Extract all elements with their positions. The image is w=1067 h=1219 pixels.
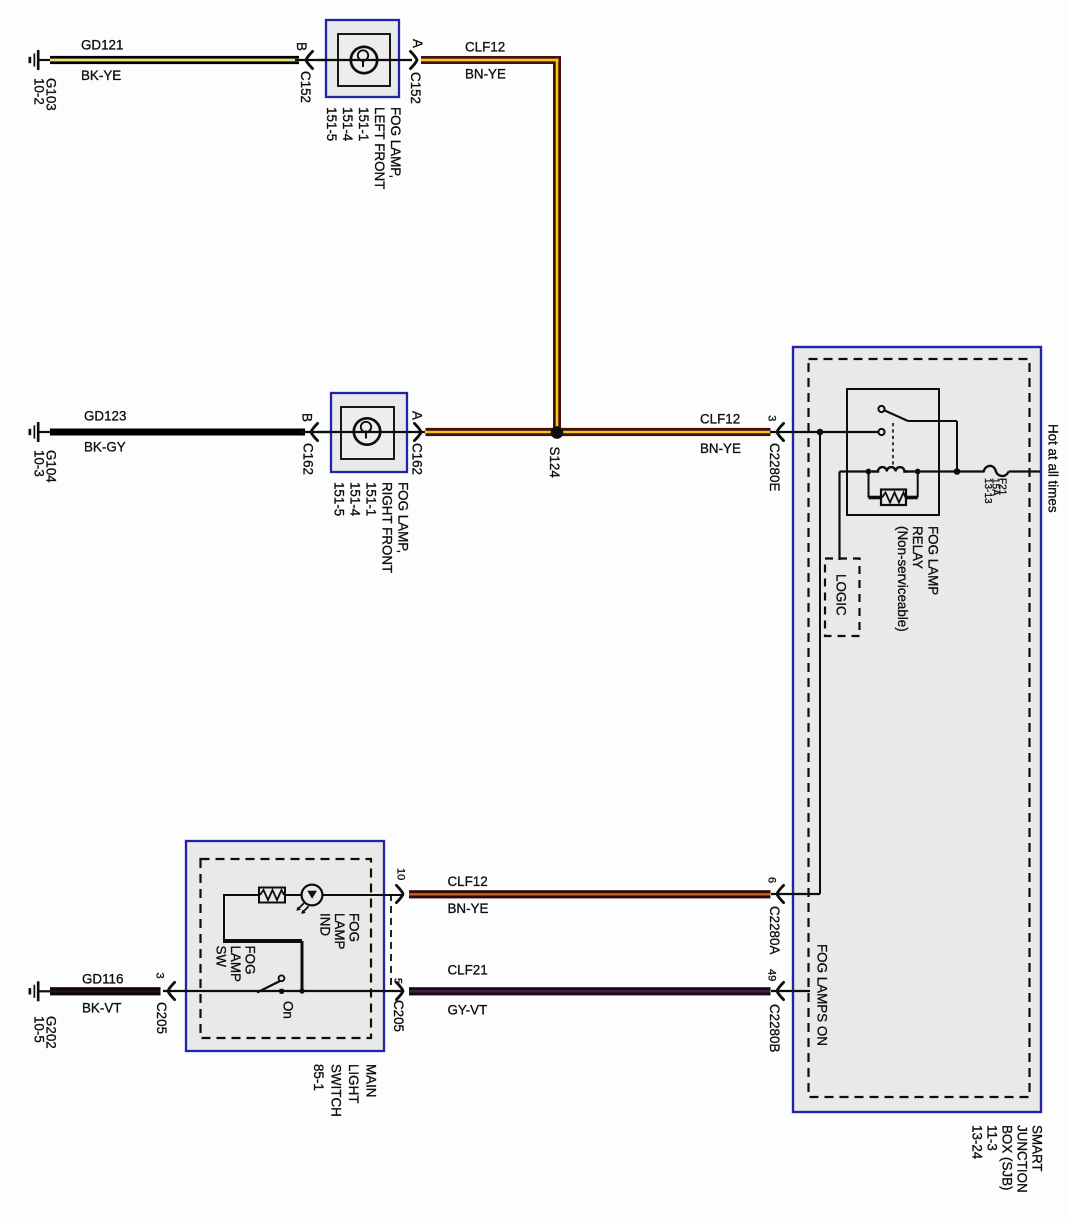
label FOG LAMPS ON <box>815 944 830 1046</box>
pin label 10 <box>394 868 406 880</box>
svg-text:49: 49 <box>766 969 778 981</box>
svg-text:GY-VT: GY-VT <box>448 1003 488 1018</box>
svg-text:SWITCH: SWITCH <box>328 1064 343 1117</box>
svg-text:13-24: 13-24 <box>970 1125 985 1160</box>
pin label 5 <box>391 978 403 984</box>
label G104 10-3 <box>31 450 58 483</box>
wire CLF12 yellow stripe vertical <box>556 59 559 431</box>
connector label C205 left <box>154 1002 169 1034</box>
wire CLF12 BN-YE middle right segment <box>561 428 771 436</box>
connector arrow pin 10 <box>396 885 403 902</box>
wire ind branch down <box>223 894 225 941</box>
svg-text:CLF12: CLF12 <box>700 412 740 427</box>
fog lamp left front box <box>326 20 399 97</box>
connector label C152 left <box>298 71 313 103</box>
label CLF21 <box>448 963 488 978</box>
relay switch pin 30 <box>878 406 884 412</box>
svg-text:LIGHT: LIGHT <box>346 1064 361 1103</box>
svg-text:A: A <box>410 39 425 48</box>
wire GD116 BK-VT <box>50 987 161 995</box>
wire resistor to lamp <box>285 894 302 896</box>
relay coil <box>871 467 914 471</box>
svg-text:FOG: FOG <box>346 913 361 942</box>
fog lamp bulb symbol <box>351 47 377 73</box>
svg-text:A: A <box>409 411 424 420</box>
label SMART JUNCTION BOX (SJB) 11-3 13-24 <box>970 1125 1045 1193</box>
wire pin6 into SJB <box>771 893 820 895</box>
svg-text:C205: C205 <box>154 1002 169 1034</box>
wire ind branch left <box>224 894 260 896</box>
connector arrow B <box>306 51 313 68</box>
main light switch dashed border <box>201 859 372 1038</box>
label CLF12 bottom <box>448 874 488 889</box>
label BK-GY <box>84 440 126 455</box>
label Hot at all times <box>1046 424 1061 513</box>
wire CLF21 GY-VT <box>409 987 771 995</box>
pin label A C162 <box>409 411 424 420</box>
svg-text:BN-YE: BN-YE <box>465 67 506 82</box>
svg-text:(Non-serviceable): (Non-serviceable) <box>895 526 910 632</box>
ground G202 <box>29 981 51 1001</box>
svg-text:FOG LAMP,: FOG LAMP, <box>395 482 410 553</box>
smart junction box outer <box>793 347 1041 1112</box>
svg-text:LOGIC: LOGIC <box>834 574 849 616</box>
svg-text:151-5: 151-5 <box>324 107 339 141</box>
wire into connector B C152 <box>295 59 330 61</box>
label GD123 <box>84 409 126 424</box>
ind resistor <box>259 888 285 903</box>
label FOG LAMP SW <box>213 946 257 983</box>
svg-text:BOX (SJB): BOX (SJB) <box>1000 1125 1015 1190</box>
relay actuator dashed link <box>892 423 894 467</box>
switch blade pivot circle <box>279 975 285 981</box>
wire coil to fuse <box>920 470 984 472</box>
fog lamp right bulb symbol <box>354 418 380 444</box>
wire GD121 BK-YE <box>50 56 299 64</box>
label F21 15A 13-13 <box>982 478 1008 504</box>
fog lamp indicator <box>296 885 322 914</box>
svg-text:S124: S124 <box>547 447 562 479</box>
connector label C2280B <box>767 1004 782 1052</box>
svg-text:13-13: 13-13 <box>982 478 993 504</box>
label BN-YE middle <box>700 441 741 456</box>
connector arrow pin 49 <box>777 982 784 999</box>
svg-text:10-3: 10-3 <box>31 450 46 477</box>
connector arrow A C162 <box>414 423 421 440</box>
relay output pin 87 <box>878 429 884 435</box>
connector arrow A <box>410 51 417 68</box>
wire into connector B C162 <box>300 431 335 433</box>
junction node fuse feed <box>954 468 961 475</box>
label G202 10-5 <box>31 1016 58 1049</box>
svg-text:FOG: FOG <box>242 946 257 975</box>
wire CLF12 yellow stripe horizontal <box>421 59 558 62</box>
relay switch wire to fuse node <box>908 421 957 472</box>
label FOG LAMP RIGHT FRONT 151-1 151-4 151-5 <box>331 482 410 573</box>
svg-text:FOG LAMP,: FOG LAMP, <box>388 107 403 178</box>
svg-text:SW: SW <box>213 946 228 968</box>
junction node relay output <box>817 429 824 436</box>
pin label 3 C2280E <box>765 415 777 421</box>
label BN-YE bottom <box>448 901 489 916</box>
switch blade <box>257 981 280 993</box>
svg-text:RELAY: RELAY <box>910 526 925 569</box>
wire relay output down to pin 6 <box>819 432 821 894</box>
svg-text:Hot at all times: Hot at all times <box>1046 424 1061 513</box>
svg-text:BN-YE: BN-YE <box>448 901 489 916</box>
svg-text:CLF12: CLF12 <box>448 874 488 889</box>
junction node switch <box>299 988 304 993</box>
svg-text:151-4: 151-4 <box>347 482 362 517</box>
pin label 49 <box>766 969 778 981</box>
svg-text:C205: C205 <box>391 1000 406 1032</box>
label CLF12 top <box>465 40 505 55</box>
svg-text:151-4: 151-4 <box>340 107 355 142</box>
connector arrow pin 3 <box>168 982 175 999</box>
relay coil right terminal <box>915 469 921 475</box>
svg-text:10-2: 10-2 <box>31 78 46 105</box>
svg-text:CLF21: CLF21 <box>448 963 488 978</box>
connector C205 dashed link <box>390 894 392 991</box>
connector label C2280E <box>767 443 782 491</box>
svg-text:GD121: GD121 <box>81 38 123 53</box>
fog lamp right front box <box>331 393 407 472</box>
connector label C205 right <box>391 1000 406 1032</box>
svg-text:C2280A: C2280A <box>767 906 782 954</box>
svg-text:3: 3 <box>154 973 166 979</box>
svg-text:3: 3 <box>765 415 777 421</box>
connector label C162 right <box>409 443 424 475</box>
wire GD123 BK-GY <box>50 429 305 436</box>
label On <box>281 1001 296 1019</box>
svg-text:LAMP: LAMP <box>332 913 347 950</box>
connector arrow B C162 <box>311 423 318 440</box>
svg-text:SMART: SMART <box>1029 1125 1044 1172</box>
svg-text:151-5: 151-5 <box>331 482 346 516</box>
label CLF12 middle <box>700 412 740 427</box>
switch contact <box>280 989 284 994</box>
svg-text:JUNCTION: JUNCTION <box>1014 1125 1029 1193</box>
label BK-VT <box>82 1001 121 1016</box>
relay coil left terminal <box>866 469 872 475</box>
svg-text:11-3: 11-3 <box>985 1125 1000 1151</box>
wire into SJB pin 3 <box>770 431 879 433</box>
svg-text:On: On <box>281 1001 296 1019</box>
pin label B <box>294 42 309 51</box>
ground G104 <box>29 422 51 442</box>
label G103 10-2 <box>31 78 58 111</box>
svg-text:BK-VT: BK-VT <box>82 1001 121 1016</box>
wire pin49 into SJB <box>771 990 810 992</box>
pin label 3 C205 <box>154 973 166 979</box>
wire through right lamp <box>318 431 425 433</box>
connector arrow pin 5 <box>396 982 403 999</box>
label GD116 <box>82 972 123 987</box>
svg-text:IND: IND <box>317 913 332 936</box>
wire CLF12 BN-YE vertical segment <box>553 56 561 433</box>
svg-text:C162: C162 <box>300 443 315 475</box>
svg-text:85-1: 85-1 <box>311 1064 326 1091</box>
svg-text:RIGHT FRONT: RIGHT FRONT <box>379 482 394 573</box>
label FOG LAMP IND <box>317 913 361 950</box>
label S124 <box>547 447 562 479</box>
svg-text:6: 6 <box>766 877 778 883</box>
connector label C2280A <box>767 906 782 954</box>
svg-text:LEFT FRONT: LEFT FRONT <box>372 107 387 189</box>
relay switch blade <box>884 410 908 421</box>
pin label A <box>410 39 425 48</box>
smart junction box dashed border <box>809 359 1030 1097</box>
wire CLF12 BN-YE middle left segment <box>426 428 554 436</box>
suppression resistor <box>881 490 906 506</box>
svg-text:B: B <box>294 42 309 51</box>
svg-text:C152: C152 <box>408 72 423 104</box>
connector arrow pin 3 <box>777 423 784 440</box>
logic dashed box <box>825 559 860 637</box>
wire CLF12 BN-YE bottom <box>409 890 771 898</box>
splice S124 <box>551 426 564 439</box>
svg-text:10-5: 10-5 <box>31 1016 46 1043</box>
svg-text:BK-GY: BK-GY <box>84 440 126 455</box>
wire fuse to hot feed <box>1009 470 1040 472</box>
svg-text:BN-YE: BN-YE <box>700 441 741 456</box>
wire ind branch bottom <box>223 939 302 943</box>
pin label B C162 <box>299 413 314 422</box>
connector arrow pin 6 <box>777 885 784 902</box>
wire CLF12 BN-YE top horizontal <box>421 56 561 64</box>
svg-text:BK-YE: BK-YE <box>81 68 121 83</box>
pin label 6 <box>766 877 778 883</box>
wire lamp to pin 10 <box>322 894 404 896</box>
label GY-VT <box>448 1003 488 1018</box>
label GD121 <box>81 38 123 53</box>
wire switch row <box>163 990 404 992</box>
label FOG LAMP RELAY (Non-serviceable) <box>895 526 940 632</box>
wire ind branch to switch <box>301 941 304 991</box>
fuse F21 <box>984 466 1009 476</box>
connector label C152 right <box>408 72 423 104</box>
ground G103 <box>29 50 51 70</box>
svg-text:151-1: 151-1 <box>363 482 378 516</box>
wire through lamp <box>318 59 412 61</box>
svg-text:MAIN: MAIN <box>363 1064 378 1097</box>
svg-text:C152: C152 <box>298 71 313 103</box>
svg-text:C2280B: C2280B <box>767 1004 782 1052</box>
main light switch box <box>186 841 384 1051</box>
svg-text:C162: C162 <box>409 443 424 475</box>
svg-text:FOG LAMPS ON: FOG LAMPS ON <box>815 944 830 1046</box>
svg-text:LAMP: LAMP <box>228 946 243 983</box>
svg-text:CLF12: CLF12 <box>465 40 505 55</box>
connector label C162 left <box>300 443 315 475</box>
svg-text:C2280E: C2280E <box>767 443 782 491</box>
svg-text:B: B <box>299 413 314 422</box>
suppression resistor leads <box>869 473 918 498</box>
label BN-YE top <box>465 67 506 82</box>
svg-text:10: 10 <box>394 868 406 880</box>
fog lamp relay box <box>847 389 939 515</box>
svg-text:GD123: GD123 <box>84 409 126 424</box>
svg-text:FOG LAMP: FOG LAMP <box>925 526 940 595</box>
label MAIN LIGHT SWITCH 85-1 <box>311 1064 379 1117</box>
svg-text:GD116: GD116 <box>82 972 123 987</box>
svg-text:151-1: 151-1 <box>356 107 371 141</box>
label LOGIC <box>834 574 849 616</box>
wire coil left to logic <box>840 472 867 561</box>
label BK-YE <box>81 68 121 83</box>
label FOG LAMP LEFT FRONT 151-1 151-4 151-5 <box>324 107 403 189</box>
